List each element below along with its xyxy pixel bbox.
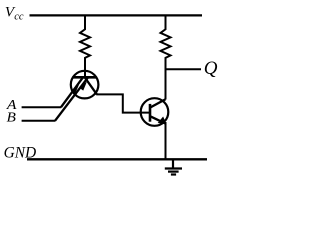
Q2 emitter lead	[150, 116, 166, 123]
transistor Q2 (output)	[141, 98, 169, 126]
Vcc rail	[30, 14, 203, 16]
Q1 emitter 2 arrow	[80, 83, 86, 90]
wire Q2 emitter to ground rail	[165, 122, 167, 159]
Q1 emitter 1 (to A)	[61, 77, 83, 107]
ground symbol	[165, 159, 182, 174]
wire input B	[22, 120, 56, 122]
Q1 base bar	[73, 76, 96, 79]
svg-text:cc: cc	[14, 12, 24, 23]
Q1 emitter 2 (to B)	[55, 77, 88, 120]
node Q output wire	[166, 68, 202, 70]
resistor R1	[80, 15, 90, 70]
transistor Q1 (multi-emitter input)	[55, 68, 98, 121]
Q1 collector lead	[85, 78, 97, 94]
ground rail	[27, 158, 207, 160]
Q2 emitter arrow	[159, 117, 166, 123]
resistor R2	[161, 15, 171, 60]
Q1 body circle	[71, 71, 99, 99]
wire input A	[22, 106, 62, 108]
svg-text:Q: Q	[204, 58, 218, 79]
wire Q1 collector to Q2 base	[96, 94, 150, 112]
svg-text:B: B	[7, 110, 17, 125]
Q1 base lead	[84, 68, 86, 77]
wire R2 bottom to Q2 collector	[165, 58, 167, 100]
Q2 base bar	[149, 104, 152, 122]
Q2 body circle	[141, 98, 169, 126]
Q1 emitter 1 arrow	[72, 86, 78, 93]
Vcc label	[5, 5, 24, 23]
Q2 collector lead	[150, 99, 166, 107]
